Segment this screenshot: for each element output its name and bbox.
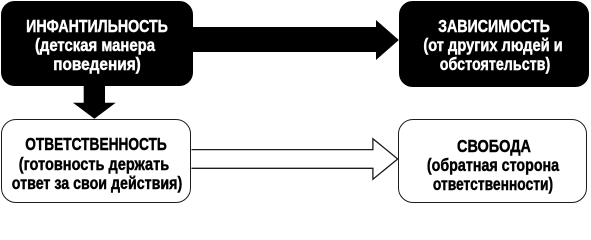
text infantility line 1	[26, 17, 168, 36]
text infantility line 2	[35, 36, 155, 55]
text dependence line 2	[424, 36, 563, 55]
box freedom (bottom-right, white)	[398, 119, 587, 203]
black arrow (infantility to dependence)	[193, 20, 399, 60]
text responsibility line 3	[11, 174, 181, 193]
box responsibility (bottom-left, white)	[1, 119, 192, 204]
text dependence line 1	[438, 17, 550, 36]
text freedom line 1	[457, 137, 531, 156]
box dependence (top-right, black)	[399, 1, 589, 87]
white arrow (responsibility to freedom)	[192, 139, 398, 180]
text dependence line 3	[440, 55, 550, 74]
text responsibility line 2	[19, 155, 169, 174]
black arrow down (infantility to responsibility)	[73, 85, 116, 119]
text freedom line 2	[427, 156, 559, 175]
text freedom line 3	[433, 175, 553, 194]
box infantility (top-left, black)	[1, 1, 193, 86]
text responsibility line 1	[25, 135, 167, 154]
text infantility line 3	[53, 55, 141, 74]
